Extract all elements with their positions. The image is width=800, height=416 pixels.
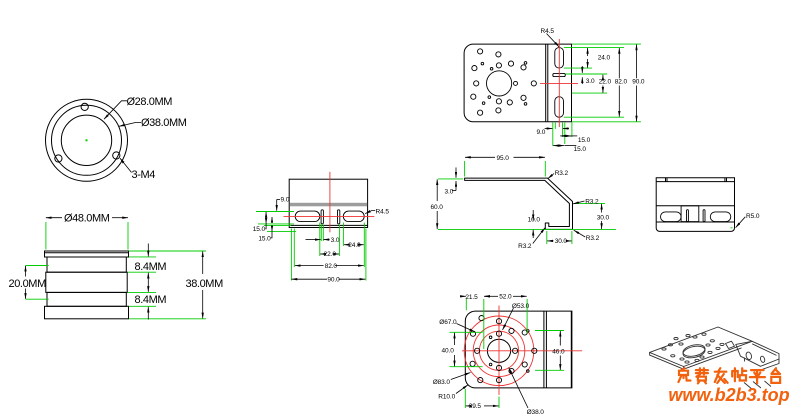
dim 40.0	[454, 333, 456, 345]
svg-text:60.0: 60.0	[431, 204, 444, 211]
svg-text:8.4MM: 8.4MM	[135, 261, 167, 273]
dim 20.0 line	[25, 266, 27, 277]
24.0 dim	[344, 244, 348, 246]
24.0	[587, 48, 589, 56]
svg-text:22.0: 22.0	[599, 79, 612, 86]
leader Ø28	[104, 101, 141, 173]
svg-text:82.0: 82.0	[325, 263, 338, 270]
right edge thick	[570, 311, 572, 388]
R4.5 leader	[365, 211, 375, 214]
svg-text:R4.5: R4.5	[541, 28, 555, 35]
flange slot 2	[760, 356, 766, 363]
svg-text:22.0: 22.0	[324, 251, 337, 258]
svg-text:Ø48.0MM: Ø48.0MM	[64, 212, 110, 224]
svg-text:R3.2: R3.2	[555, 170, 569, 177]
right strip mid slot	[553, 73, 566, 76]
outline	[656, 178, 734, 232]
15.0 first	[265, 212, 267, 218]
dim 21.5	[460, 295, 466, 297]
svg-text:40.0: 40.0	[442, 348, 455, 355]
90.0 dim	[292, 278, 328, 280]
green extension lines	[450, 299, 565, 408]
big hole ellipse	[682, 343, 706, 358]
bottom inner edge	[289, 224, 367, 226]
svg-text:24.0: 24.0	[598, 55, 611, 62]
hole M4 lower-left	[55, 155, 62, 162]
15.0 first	[560, 135, 572, 137]
leader Ø38	[119, 123, 141, 127]
3.0 dim	[306, 239, 321, 241]
top cap	[45, 251, 129, 257]
flange inner fold line	[752, 344, 776, 356]
dim 30.0 bottom	[547, 240, 553, 242]
mid line	[656, 205, 734, 207]
leader Ø53.0	[503, 308, 514, 330]
middle bracket front view	[289, 179, 367, 227]
slot left stadium	[295, 211, 320, 222]
svg-text:Ø67.0: Ø67.0	[439, 319, 457, 326]
svg-text:9.0: 9.0	[537, 129, 546, 136]
svg-text:46.0: 46.0	[552, 349, 565, 356]
center circle Ø28	[487, 339, 510, 362]
82.0	[618, 48, 620, 78]
R5.0 leader	[736, 217, 746, 228]
dim Ø48.0MM	[26, 218, 203, 320]
dim 38.0 line	[202, 251, 204, 274]
3.0 bracket	[581, 66, 583, 73]
center rect	[681, 206, 699, 222]
svg-text:3-M4: 3-M4	[132, 169, 156, 181]
left slot	[661, 212, 682, 222]
svg-text:Ø38.0: Ø38.0	[527, 409, 545, 416]
svg-text:R3.2: R3.2	[585, 198, 599, 205]
small slot 2	[703, 210, 705, 222]
svg-text:Ø28.0MM: Ø28.0MM	[127, 96, 173, 108]
svg-text:15.0: 15.0	[578, 137, 591, 144]
svg-text:52.0: 52.0	[499, 294, 512, 301]
right slot	[710, 212, 731, 222]
svg-text:30.0: 30.0	[597, 214, 610, 221]
bend double line	[545, 44, 547, 122]
svg-text:Ø83.0: Ø83.0	[433, 379, 451, 386]
slot right stadium	[343, 211, 364, 222]
svg-text:3.0: 3.0	[586, 78, 595, 85]
green extension lines	[438, 161, 616, 244]
hole M4 lower-right	[113, 152, 120, 159]
leader Ø83.0	[451, 373, 471, 380]
svg-text:30.0: 30.0	[555, 238, 568, 245]
green extension lines Ø48	[26, 222, 207, 319]
big center hole	[487, 71, 512, 96]
green extension lines	[553, 44, 641, 146]
profile outline	[465, 178, 573, 229]
right strip slot bottom	[555, 97, 564, 118]
bend double line	[543, 311, 545, 388]
svg-text:15.0: 15.0	[258, 235, 271, 242]
top plate face	[650, 327, 753, 367]
hole M4 top	[81, 103, 88, 110]
leader R10.0	[456, 385, 468, 394]
body section 1	[47, 257, 126, 272]
small holes	[662, 348, 666, 350]
small holes	[470, 316, 537, 383]
dim 95.0	[465, 156, 495, 158]
dim 60.0	[436, 179, 438, 201]
outer circle Ø48	[46, 99, 128, 181]
body section 3	[47, 292, 126, 306]
svg-text:90.0: 90.0	[632, 79, 645, 86]
leader Ø38.0	[509, 368, 528, 408]
svg-text:R10.0: R10.0	[438, 393, 455, 400]
top ticks	[665, 178, 667, 182]
svg-text:21.5: 21.5	[465, 294, 478, 301]
small slot 1	[321, 210, 323, 224]
plate outline rounded left	[464, 44, 571, 122]
red bolt circles	[462, 306, 582, 395]
dim 3.0 bracket	[455, 168, 457, 178]
svg-text:R3.2: R3.2	[518, 243, 532, 250]
svg-text:38.0MM: 38.0MM	[186, 278, 224, 290]
svg-text:10.0: 10.0	[528, 216, 541, 223]
R3.2 top leader	[548, 174, 554, 179]
svg-text:9.0: 9.0	[281, 197, 290, 204]
outline	[289, 179, 367, 227]
dim 46.0	[559, 331, 561, 346]
watermark line 1	[679, 368, 691, 382]
svg-text:15.0: 15.0	[253, 226, 266, 233]
svg-text:95.0: 95.0	[497, 155, 510, 162]
9.0 leader	[277, 199, 280, 201]
dim 52.0	[484, 295, 498, 297]
base	[45, 306, 129, 319]
leader Ø67.0	[457, 324, 476, 333]
R4.5 leader	[547, 34, 560, 47]
svg-text:3.0: 3.0	[445, 188, 454, 195]
red centerlines	[284, 172, 375, 233]
small holes	[478, 49, 483, 54]
dim 39.5	[466, 405, 468, 407]
svg-text:90.0: 90.0	[327, 277, 340, 284]
dim 10.0	[532, 210, 534, 220]
cylinder side view	[45, 251, 129, 319]
inner circle Ø28	[61, 115, 111, 165]
right strip slot top	[555, 48, 564, 69]
flange slot oval	[745, 351, 752, 360]
svg-text:20.0MM: 20.0MM	[9, 278, 47, 290]
bend band	[290, 203, 367, 207]
green mark	[731, 227, 733, 229]
9.0 bottom	[545, 128, 553, 130]
svg-text:8.4MM: 8.4MM	[135, 294, 167, 306]
svg-text:R4.5: R4.5	[376, 209, 390, 216]
green ext right 8.4 levels	[129, 256, 156, 258]
15.0 second	[271, 217, 273, 223]
15.0 second	[553, 145, 560, 147]
red centerlines	[540, 39, 578, 127]
dim 30.0 right	[601, 204, 603, 213]
center point	[86, 139, 88, 141]
flange top view	[46, 99, 128, 181]
90.0	[636, 45, 638, 79]
small slot 2	[338, 210, 340, 224]
red centerlines	[462, 350, 582, 352]
leader 3-M4	[120, 158, 132, 172]
top-right plate view	[464, 44, 571, 122]
plate thickness edges	[650, 352, 684, 369]
bottom plate view	[465, 311, 572, 388]
body section 2	[46, 272, 127, 292]
svg-text:3.0: 3.0	[331, 237, 340, 244]
svg-text:Ø53.0: Ø53.0	[512, 303, 530, 310]
fold square hole	[726, 341, 735, 348]
plate outline rounded left	[465, 311, 572, 388]
22.0 dim	[320, 253, 322, 255]
82.0 dim	[295, 265, 324, 267]
bent bracket profile view	[465, 178, 573, 229]
green ext left 20.0	[26, 265, 49, 267]
R3.2 bottom-left leader	[533, 228, 545, 244]
small slot 1	[687, 210, 689, 222]
right dims	[545, 34, 637, 146]
green extension lines	[256, 212, 366, 281]
R3.2 bottom-right leader	[574, 230, 585, 237]
svg-text:15.0: 15.0	[574, 146, 587, 153]
22.0	[602, 75, 604, 79]
dim 8.4 arrows right	[147, 244, 149, 257]
3D isometric bracket	[650, 327, 779, 390]
lower flange fragments behind watermark	[744, 383, 753, 390]
middle circle Ø38	[52, 105, 122, 175]
svg-text:www.b2b3.top: www.b2b3.top	[668, 385, 789, 405]
svg-text:R3.2: R3.2	[586, 235, 600, 242]
svg-text:R5.0: R5.0	[746, 213, 760, 220]
left dims	[265, 200, 375, 280]
svg-text:24.0: 24.0	[348, 242, 361, 249]
green ext right cap top / base bottom (38.0)	[129, 250, 206, 252]
svg-text:Ø38.0MM: Ø38.0MM	[141, 117, 187, 129]
flange face	[736, 341, 779, 366]
svg-text:82.0: 82.0	[615, 79, 628, 86]
right bracket front view	[656, 178, 734, 232]
svg-text:39.5: 39.5	[469, 403, 482, 410]
top strip line	[656, 181, 734, 183]
R3.2 right leader	[573, 201, 584, 204]
base top line	[656, 221, 734, 223]
